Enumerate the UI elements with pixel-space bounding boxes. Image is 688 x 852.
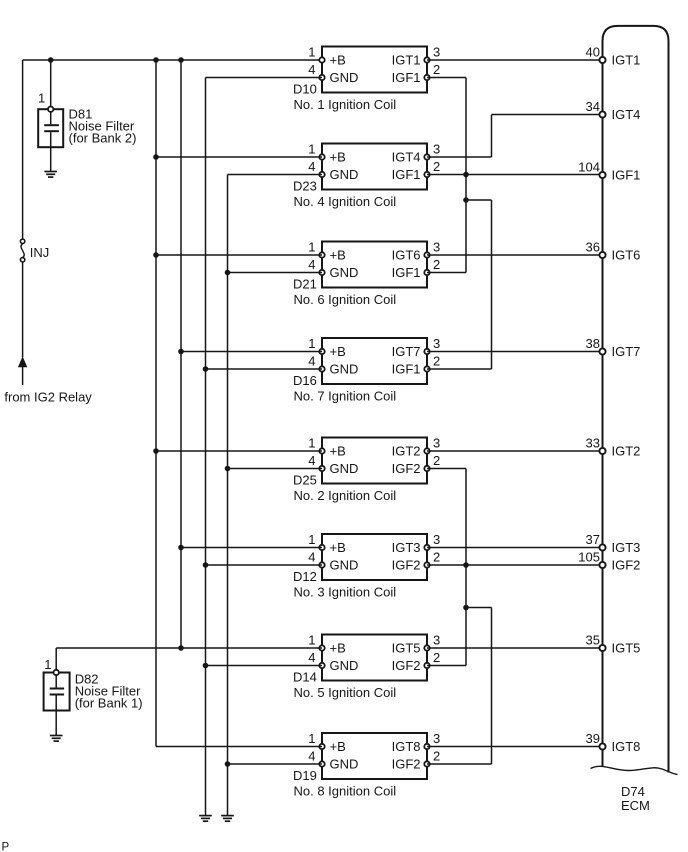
junction dot +B bus 1 to coil D25: [153, 448, 159, 454]
svg-text:INJ: INJ: [30, 245, 50, 260]
svg-text:3: 3: [433, 239, 440, 254]
wire IGT6 coil to ECM pin 36: [427, 254, 603, 256]
pin 3 (IGT4) of D23: [424, 154, 429, 159]
svg-text:3: 3: [433, 44, 440, 59]
wire GND coil D21: [228, 272, 323, 274]
wire GND coil D14: [206, 665, 323, 667]
svg-text:35: 35: [586, 632, 600, 647]
page mark P: [2, 842, 10, 852]
label pin numbers of D14: [308, 632, 440, 665]
svg-text:+B: +B: [330, 540, 346, 555]
wire below INJ to arrow: [22, 262, 24, 357]
svg-text:1: 1: [308, 435, 315, 450]
label No. 5 Ignition Coil: [294, 685, 397, 700]
capacitor symbol inside D82: [50, 675, 64, 711]
svg-text:D16: D16: [293, 373, 317, 388]
svg-text:GND: GND: [330, 167, 359, 182]
label terminal names of D10: [330, 53, 421, 86]
ignition coil D12 box (No. 3 Ignition Coil): [322, 534, 427, 580]
svg-text:4: 4: [308, 257, 315, 272]
noise filter D81 box: [38, 109, 63, 147]
pin 2 (IGF1) of D10: [424, 75, 429, 80]
svg-text:4: 4: [308, 159, 315, 174]
label No. 7 Ignition Coil: [294, 389, 397, 404]
svg-text:P: P: [2, 842, 10, 852]
svg-text:38: 38: [586, 336, 600, 351]
pin 4 (GND) of D14: [319, 663, 324, 668]
svg-text:IGT8: IGT8: [392, 739, 421, 754]
svg-text:IGF2: IGF2: [392, 757, 421, 772]
wire IGF2 branch horizontal: [466, 607, 492, 609]
svg-text:3: 3: [433, 731, 440, 746]
pin 3 (IGT5) of D14: [424, 645, 429, 650]
junction dot GND bus 2 to coil D25: [225, 466, 231, 472]
noise filter D82 box: [44, 673, 70, 711]
pin 1 (+B) of D25: [319, 448, 324, 453]
wire IGT1 coil to ECM pin 40: [427, 59, 603, 61]
label No. 2 Ignition Coil: [294, 488, 397, 503]
wire +B bus 1 vertical: [155, 60, 157, 747]
label pin numbers of D25: [308, 435, 440, 468]
junction dot IGF1 branch: [463, 197, 469, 203]
label terminal names of D14: [330, 641, 421, 674]
junction dot GND bus 2 to coil D21: [225, 270, 231, 276]
label No. 1 Ignition Coil: [294, 97, 397, 112]
ignition coil D21 box (No. 6 Ignition Coil): [322, 242, 427, 288]
svg-text:D25: D25: [293, 472, 317, 487]
label No. 6 Ignition Coil: [294, 292, 397, 307]
label pin numbers of D16: [308, 336, 440, 369]
label pin numbers of D10: [308, 44, 440, 77]
svg-text:IGT7: IGT7: [392, 344, 421, 359]
svg-text:+B: +B: [330, 444, 346, 459]
svg-text:IGT1: IGT1: [612, 53, 641, 68]
svg-text:D14: D14: [293, 669, 317, 684]
pin 1 of D82: [54, 670, 59, 675]
svg-text:4: 4: [308, 650, 315, 665]
label pin numbers of D21: [308, 239, 440, 272]
label D10: [293, 81, 317, 96]
ECM pin 39 (IGT8): [586, 731, 641, 754]
svg-text:4: 4: [308, 453, 315, 468]
label terminal names of D12: [330, 540, 421, 573]
svg-text:IGT6: IGT6: [392, 248, 421, 263]
svg-text:1: 1: [308, 632, 315, 647]
wire IGF2 branch vertical to coil D19: [491, 608, 493, 765]
svg-text:No. 6 Ignition Coil: No. 6 Ignition Coil: [294, 292, 397, 307]
wire GND coil D10 to GND bus 1: [206, 77, 323, 79]
ignition coil D23 box (No. 4 Ignition Coil): [322, 144, 427, 190]
svg-text:IGT1: IGT1: [392, 53, 421, 68]
label pin 1 of D81: [38, 91, 45, 106]
svg-text:GND: GND: [330, 558, 359, 573]
svg-text:GND: GND: [330, 757, 359, 772]
wire GND coil D23 to GND bus 2: [228, 174, 323, 176]
wire GND coil D16: [206, 368, 323, 370]
pin 1 (+B) of D12: [319, 545, 324, 550]
svg-text:D21: D21: [293, 276, 317, 291]
pin 1 (+B) of D23: [319, 154, 324, 159]
ECM pin 37 (IGT3): [586, 532, 641, 555]
label No. 4 Ignition Coil: [294, 194, 397, 209]
junction dot GND bus 1 to coil D14: [203, 663, 209, 669]
svg-text:D74: D74: [621, 784, 645, 799]
svg-text:No. 4 Ignition Coil: No. 4 Ignition Coil: [294, 194, 397, 209]
ignition coil D10 box (No. 1 Ignition Coil): [322, 47, 427, 93]
wire IGT5 coil to ECM pin 35: [427, 647, 603, 649]
svg-text:2: 2: [433, 453, 440, 468]
svg-text:IGT4: IGT4: [612, 107, 641, 122]
wire IGF2 to coil D19 pin 2: [427, 763, 492, 765]
svg-text:No. 1 Ignition Coil: No. 1 Ignition Coil: [294, 97, 397, 112]
pin 2 (IGF2) of D12: [424, 562, 429, 567]
svg-text:2: 2: [433, 748, 440, 763]
pin 4 (GND) of D16: [319, 366, 324, 371]
wire IGF1 from coil D10 pin 2: [427, 77, 466, 79]
wire IGF2 from coil D25 pin 2: [427, 468, 466, 470]
ground at bottom of GND bus 1: [199, 816, 212, 822]
label pin numbers of D23: [308, 141, 440, 174]
svg-text:1: 1: [308, 141, 315, 156]
label D82 Noise Filter (for Bank 1): [75, 671, 143, 710]
label No. 8 Ignition Coil: [294, 784, 397, 799]
svg-text:IGF2: IGF2: [612, 558, 641, 573]
svg-text:No. 2 Ignition Coil: No. 2 Ignition Coil: [294, 488, 397, 503]
junction dot IGF1 at coil D23 row: [463, 172, 469, 178]
junction dot GND bus 2 to coil D19: [225, 761, 231, 767]
svg-text:34: 34: [586, 99, 600, 114]
junction dot +B bus 2 end at coil D14 wire: [178, 645, 184, 651]
pin 4 (GND) of D10: [319, 75, 324, 80]
label pin 1 of D82: [44, 657, 51, 672]
junction dot GND bus 1 to coil D12: [203, 562, 209, 568]
svg-text:IGF1: IGF1: [392, 167, 421, 182]
label D74 ECM: [621, 784, 650, 813]
svg-text:+B: +B: [330, 53, 346, 68]
svg-text:3: 3: [433, 336, 440, 351]
label terminal names of D25: [330, 444, 421, 477]
label D23: [293, 178, 317, 193]
wire +B to coil D12: [181, 547, 322, 549]
wire IGF2 vertical: [465, 469, 467, 666]
svg-text:GND: GND: [330, 70, 359, 85]
wire +B to coil D16: [181, 351, 322, 353]
svg-text:GND: GND: [330, 362, 359, 377]
svg-text:1: 1: [308, 731, 315, 746]
wire left vertical feed: [22, 60, 24, 241]
svg-text:+B: +B: [330, 641, 346, 656]
svg-text:D12: D12: [293, 569, 317, 584]
wire IGT2 coil to ECM pin 33: [427, 450, 603, 452]
wire +B to coil D23: [156, 156, 322, 158]
pin 2 (IGF2) of D14: [424, 663, 429, 668]
wire IGT4 to ECM pin 34: [492, 114, 603, 116]
pin 3 (IGT6) of D21: [424, 252, 429, 257]
connector INJ (2-circle inline connector): [20, 239, 24, 262]
junction dot +B bus 2 to coil D12: [178, 545, 184, 551]
svg-text:2: 2: [433, 650, 440, 665]
wire IGT8 coil to ECM pin 39: [427, 746, 603, 748]
pin 1 (+B) of D19: [319, 744, 324, 749]
svg-text:No. 3 Ignition Coil: No. 3 Ignition Coil: [294, 585, 397, 600]
wire +B bus 2 vertical: [180, 60, 182, 648]
pin 2 (IGF1) of D23: [424, 172, 429, 177]
svg-text:IGF1: IGF1: [392, 362, 421, 377]
pin 4 (GND) of D21: [319, 270, 324, 275]
label terminal names of D19: [330, 739, 421, 772]
pin 1 of D81: [48, 107, 53, 112]
svg-text:33: 33: [586, 435, 600, 450]
svg-text:+B: +B: [330, 344, 346, 359]
wire +B from D82 to coil D14: [56, 647, 322, 649]
wire IGF1 vertical: [465, 78, 467, 273]
wire +B to coil D25: [156, 450, 322, 452]
svg-text:IGT5: IGT5: [612, 641, 641, 656]
svg-text:from IG2 Relay: from IG2 Relay: [4, 389, 92, 404]
svg-text:104: 104: [578, 159, 600, 174]
wire IGT4 jog vertical: [491, 115, 493, 158]
arrow from IG2 Relay (pointing up): [18, 356, 27, 385]
ignition coil D19 box (No. 8 Ignition Coil): [322, 733, 427, 779]
svg-text:2: 2: [433, 353, 440, 368]
label pin numbers of D19: [308, 731, 440, 764]
svg-text:IGF1: IGF1: [612, 168, 641, 183]
svg-text:IGT7: IGT7: [612, 344, 641, 359]
wire IGT7 coil to ECM pin 38: [427, 351, 603, 353]
wire IGT3 coil to ECM pin 37: [427, 547, 603, 549]
pin 1 (+B) of D16: [319, 349, 324, 354]
pin 3 (IGT1) of D10: [424, 57, 429, 62]
pin 1 (+B) of D14: [319, 645, 324, 650]
svg-text:2: 2: [433, 62, 440, 77]
wire top +B bus from IG2 relay feed: [23, 59, 322, 61]
wire GND coil D12: [206, 564, 323, 566]
svg-text:36: 36: [586, 239, 600, 254]
label D21: [293, 276, 317, 291]
svg-text:IGF1: IGF1: [392, 265, 421, 280]
junction dot top bus / +B bus 2: [178, 57, 184, 63]
svg-text:3: 3: [433, 632, 440, 647]
svg-text:(for Bank 2): (for Bank 2): [69, 131, 137, 146]
ECM pin 38 (IGT7): [586, 336, 641, 359]
svg-text:(for Bank 1): (for Bank 1): [75, 695, 143, 710]
label terminal names of D16: [330, 344, 421, 377]
wire +B to coil D21: [156, 254, 322, 256]
ground below D81: [44, 172, 57, 178]
svg-text:ECM: ECM: [621, 798, 650, 813]
svg-text:IGT3: IGT3: [392, 540, 421, 555]
svg-text:2: 2: [433, 549, 440, 564]
svg-text:4: 4: [308, 748, 315, 763]
pin 3 (IGT7) of D16: [424, 349, 429, 354]
svg-text:IGT3: IGT3: [612, 540, 641, 555]
svg-text:37: 37: [586, 532, 600, 547]
label D16: [293, 373, 317, 388]
label INJ: [30, 245, 50, 260]
svg-text:+B: +B: [330, 739, 346, 754]
ECM pin 36 (IGT6): [586, 239, 641, 262]
svg-text:No. 8 Ignition Coil: No. 8 Ignition Coil: [294, 784, 397, 799]
svg-text:4: 4: [308, 549, 315, 564]
wire IGF1 branch horizontal: [466, 199, 492, 201]
svg-text:1: 1: [308, 532, 315, 547]
wire D81 feed: [50, 60, 52, 107]
svg-text:+B: +B: [330, 150, 346, 165]
ECM bottom break (wavy line): [591, 766, 678, 774]
ignition coil D14 box (No. 5 Ignition Coil): [322, 635, 427, 681]
svg-text:1: 1: [38, 91, 45, 106]
svg-text:1: 1: [44, 657, 51, 672]
ECM pin 33 (IGT2): [586, 435, 641, 458]
svg-text:4: 4: [308, 62, 315, 77]
svg-text:D10: D10: [293, 81, 317, 96]
svg-text:2: 2: [433, 159, 440, 174]
junction dot IGF2 at coil D12 row: [463, 562, 469, 568]
pin 3 (IGT8) of D19: [424, 744, 429, 749]
wire GND coil D25: [228, 468, 323, 470]
svg-text:40: 40: [586, 44, 600, 59]
pin 3 (IGT3) of D12: [424, 545, 429, 550]
svg-text:1: 1: [308, 44, 315, 59]
svg-text:3: 3: [433, 532, 440, 547]
svg-text:D23: D23: [293, 178, 317, 193]
pin 2 (IGF1) of D21: [424, 270, 429, 275]
svg-text:IGT2: IGT2: [612, 444, 641, 459]
capacitor symbol inside D81: [44, 112, 59, 148]
ECM pin 104 (IGF1): [578, 159, 640, 182]
svg-text:IGT2: IGT2: [392, 444, 421, 459]
svg-text:4: 4: [308, 353, 315, 368]
pin 3 (IGT2) of D25: [424, 448, 429, 453]
wire GND bus 2 vertical: [227, 175, 229, 816]
label D14: [293, 669, 317, 684]
junction dot IGF2 branch: [463, 605, 469, 611]
svg-text:+B: +B: [330, 248, 346, 263]
svg-text:GND: GND: [330, 265, 359, 280]
svg-text:IGF2: IGF2: [392, 658, 421, 673]
ECM pin 105 (IGF2): [578, 549, 640, 572]
svg-text:D19: D19: [293, 768, 317, 783]
svg-text:2: 2: [433, 257, 440, 272]
svg-text:IGF2: IGF2: [392, 558, 421, 573]
junction dot +B bus 1 to coil D21: [153, 252, 159, 258]
label No. 3 Ignition Coil: [294, 585, 397, 600]
wire IGF2 coil D12 pin 2 to ECM pin 105: [427, 564, 603, 566]
svg-text:GND: GND: [330, 461, 359, 476]
pin 4 (GND) of D25: [319, 466, 324, 471]
junction dot +B bus 1 to coil D23: [153, 154, 159, 160]
ignition coil D16 box (No. 7 Ignition Coil): [322, 338, 427, 384]
pin 2 (IGF1) of D16: [424, 366, 429, 371]
svg-text:105: 105: [578, 549, 600, 564]
junction dot top bus / +B bus 1: [153, 57, 159, 63]
svg-text:No. 5 Ignition Coil: No. 5 Ignition Coil: [294, 685, 397, 700]
svg-text:1: 1: [308, 239, 315, 254]
label D25: [293, 472, 317, 487]
pin 2 (IGF2) of D25: [424, 466, 429, 471]
wire IGF1 to coil D16 pin 2: [427, 368, 492, 370]
wire D82 to ground: [55, 711, 57, 736]
label D81 Noise Filter (for Bank 2): [69, 107, 137, 146]
ignition coil D25 box (No. 2 Ignition Coil): [322, 438, 427, 484]
svg-text:IGT5: IGT5: [392, 641, 421, 656]
svg-text:IGT8: IGT8: [612, 739, 641, 754]
label terminal names of D23: [330, 150, 421, 183]
svg-text:IGT6: IGT6: [612, 248, 641, 263]
label D19: [293, 768, 317, 783]
wire +B bus 1 turn to coil D19: [156, 746, 322, 748]
pin 1 (+B) of D10: [319, 57, 324, 62]
ECM pin 40 (IGT1): [586, 44, 641, 67]
pin 4 (GND) of D12: [319, 562, 324, 567]
pin 4 (GND) of D19: [319, 761, 324, 766]
junction dot GND bus 1 to coil D16: [203, 366, 209, 372]
ECM pin 34 (IGT4): [586, 99, 641, 122]
wire IGF2 to coil D14 pin 2: [427, 665, 466, 667]
pin 4 (GND) of D23: [319, 172, 324, 177]
pin 2 (IGF2) of D19: [424, 761, 429, 766]
svg-text:IGF2: IGF2: [392, 461, 421, 476]
pin 1 (+B) of D21: [319, 252, 324, 257]
junction dot top bus to D81: [48, 57, 54, 63]
label terminal names of D21: [330, 248, 421, 281]
ECM pin 35 (IGT5): [586, 632, 641, 655]
svg-text:3: 3: [433, 435, 440, 450]
wire IGF1 branch vertical to coil D16: [491, 200, 493, 369]
svg-text:IGF1: IGF1: [392, 70, 421, 85]
label pin numbers of D12: [308, 532, 440, 565]
svg-text:3: 3: [433, 141, 440, 156]
wire GND coil D19: [228, 763, 323, 765]
wire D81 to ground: [50, 147, 52, 171]
label from IG2 Relay: [4, 389, 92, 404]
svg-text:39: 39: [586, 731, 600, 746]
wire D82 riser to +B wire of coil 5: [55, 648, 57, 670]
ground below D82: [50, 736, 63, 742]
wire IGF1 to coil D21 pin 2: [427, 272, 466, 274]
svg-text:GND: GND: [330, 658, 359, 673]
wire IGT4 coil D23 to jog: [427, 156, 492, 158]
svg-text:1: 1: [308, 336, 315, 351]
ECM connector D74 outline: [603, 26, 669, 773]
wire GND bus 1 vertical: [205, 78, 207, 816]
ground at bottom of GND bus 2: [221, 816, 234, 822]
svg-text:IGT4: IGT4: [392, 150, 421, 165]
label D12: [293, 569, 317, 584]
wire IGF1 coil D23 pin 2 to ECM pin 104: [427, 174, 603, 176]
junction dot +B bus 2 to coil D16: [178, 349, 184, 355]
svg-text:No. 7 Ignition Coil: No. 7 Ignition Coil: [294, 389, 397, 404]
